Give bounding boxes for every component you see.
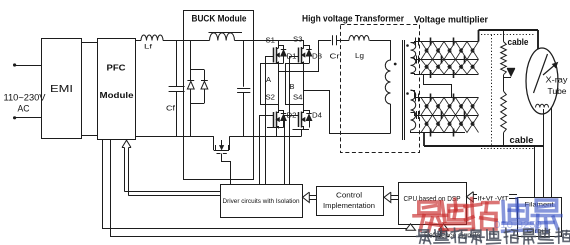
gate wire S2 to driver	[260, 116, 274, 185]
PFC sense line 1	[103, 140, 407, 229]
cathode return wire	[534, 146, 536, 197]
transformer dashed enclosure	[341, 25, 420, 153]
leg B source junction to rail	[293, 127, 310, 137]
capacitor Cf	[166, 40, 185, 136]
switch S4	[299, 105, 305, 129]
AC terminal N	[13, 116, 41, 119]
wire EMI to PFC top	[81, 42, 97, 44]
tube cathode electrode	[534, 54, 548, 93]
wire bottom rail PFC to buck switch	[136, 136, 214, 138]
buck output capacitor	[237, 40, 250, 136]
node A loop	[261, 64, 284, 105]
wire PFC output top rail	[136, 40, 141, 42]
svg-text:cable: cable	[508, 37, 529, 47]
secondary 2 taps with coupling capacitors	[411, 91, 420, 133]
svg-text:X-ray: X-ray	[546, 76, 568, 85]
filament lead right	[551, 108, 553, 197]
diode D3	[304, 46, 323, 64]
svg-text:BUCK Module: BUCK Module	[192, 14, 247, 24]
svg-text:Lg: Lg	[355, 51, 364, 60]
svg-text:Lf: Lf	[144, 44, 152, 51]
HV cable bottom conductor	[424, 133, 543, 147]
switch S3	[299, 40, 305, 64]
cable dotted shield vertical	[491, 35, 493, 148]
svg-text:Cf: Cf	[166, 104, 176, 113]
filament lead left	[543, 109, 545, 197]
wire Lf to BUCK	[163, 40, 184, 42]
inductor Lf	[141, 35, 163, 51]
svg-text:EMI: EMI	[50, 83, 73, 95]
wire Cr to Lg	[336, 40, 349, 42]
svg-text:Cr: Cr	[330, 52, 341, 61]
node B wire to transformer return	[304, 91, 391, 134]
svg-text:Implementation: Implementation	[323, 203, 375, 210]
svg-text:Tube: Tube	[548, 87, 568, 96]
Driver circuits with Isolation block	[221, 185, 303, 218]
AC terminal L	[13, 63, 41, 66]
PFC Module block	[98, 39, 136, 140]
inductor Lg	[349, 36, 369, 61]
wire EMI to PFC bottom	[81, 135, 97, 137]
X-ray tube envelope	[526, 48, 558, 114]
cable series resistance top	[501, 30, 507, 77]
buck freewheel diode branch 2	[191, 70, 208, 104]
buck switch transistor	[214, 136, 230, 153]
secondary winding 2	[411, 90, 416, 130]
wire Lg to primary	[370, 41, 391, 61]
svg-text:D4: D4	[312, 113, 322, 120]
watermark big characters	[414, 199, 561, 232]
voltage multiplier stack bottom	[414, 94, 479, 137]
svg-text:010-8259: 010-8259	[494, 220, 542, 231]
node B loop	[286, 64, 310, 105]
cable midpoint ground	[504, 69, 516, 78]
tube anode arrow	[543, 63, 558, 75]
gate wire S4 to driver	[285, 116, 299, 185]
bottom rail buck to bridge	[230, 136, 302, 138]
diode D1	[279, 46, 297, 64]
svg-text:A: A	[266, 75, 271, 84]
svg-text:PFC: PFC	[107, 63, 126, 73]
reference arrow into CPU 1	[406, 224, 416, 231]
EMI filter block	[42, 39, 82, 139]
gate wire S3 to driver	[290, 57, 299, 185]
capacitor Cr	[330, 35, 341, 60]
svg-text:S2: S2	[266, 95, 276, 102]
svg-text:S3: S3	[293, 37, 303, 44]
wire top rail inside BUCK to bridge	[184, 40, 210, 42]
svg-text:S1: S1	[266, 38, 276, 45]
svg-text:Module: Module	[100, 90, 134, 100]
switch S1	[274, 40, 280, 64]
HV cable top conductor	[479, 30, 539, 49]
arrow Control to Driver	[309, 195, 316, 197]
buck gate wire to driver	[222, 154, 231, 185]
wire node A to Cr	[318, 40, 331, 42]
cable dotted shield bottom	[481, 148, 535, 150]
svg-text:Control: Control	[336, 193, 362, 200]
secondary 1 taps with coupling capacitors	[411, 38, 420, 75]
arrow CPU to Control	[391, 195, 398, 197]
svg-text:110~230V: 110~230V	[4, 93, 46, 103]
voltage multiplier stack top	[414, 38, 479, 79]
BUCK Module enclosure	[184, 11, 254, 180]
watermark gray slogan	[417, 228, 570, 244]
X-ray Tube label	[546, 76, 568, 97]
AC source label 110~230V AC	[4, 93, 46, 114]
secondary 1 polarity dot	[406, 44, 409, 47]
secondary 2 polarity dot	[406, 92, 409, 95]
leg A source junction to rail	[267, 127, 284, 137]
cable series resistance bottom	[501, 77, 507, 146]
diode D2	[279, 111, 297, 128]
CPU based on DSP block	[399, 183, 467, 225]
Control Implementation block	[317, 187, 384, 216]
svg-text:S4: S4	[293, 95, 303, 102]
svg-text:D3: D3	[312, 54, 322, 61]
node A wire to resonant tank	[279, 41, 319, 72]
PFC sense line 2	[111, 140, 441, 237]
svg-text:AC: AC	[18, 104, 30, 114]
switch S2	[274, 105, 280, 129]
diode D4	[304, 111, 323, 128]
driver to PFC gate feedback arrow	[122, 140, 220, 196]
svg-text:Driver circuits with Isolation: Driver circuits with Isolation	[223, 198, 300, 205]
svg-text:High voltage Transformer: High voltage Transformer	[302, 14, 404, 24]
cable dotted shield top	[481, 34, 535, 36]
Filament circuit block	[518, 198, 562, 237]
primary polarity dot	[394, 63, 397, 66]
svg-text:cable: cable	[510, 135, 534, 145]
tube filament	[536, 104, 549, 107]
reference arrow into CPU 2	[439, 224, 450, 237]
svg-text:Voltage multiplier: Voltage multiplier	[414, 15, 488, 25]
arrow Filament sense to CPU	[467, 192, 518, 203]
series link between multiplier stacks	[424, 75, 452, 98]
svg-text:B: B	[290, 82, 295, 91]
gate wire S1 to driver	[266, 57, 274, 185]
buck freewheel diode branch 1	[187, 40, 194, 136]
secondary winding 1	[411, 43, 416, 74]
transformer core	[403, 40, 405, 140]
buck inductor with core	[209, 33, 243, 41]
transformer primary winding	[385, 60, 390, 134]
